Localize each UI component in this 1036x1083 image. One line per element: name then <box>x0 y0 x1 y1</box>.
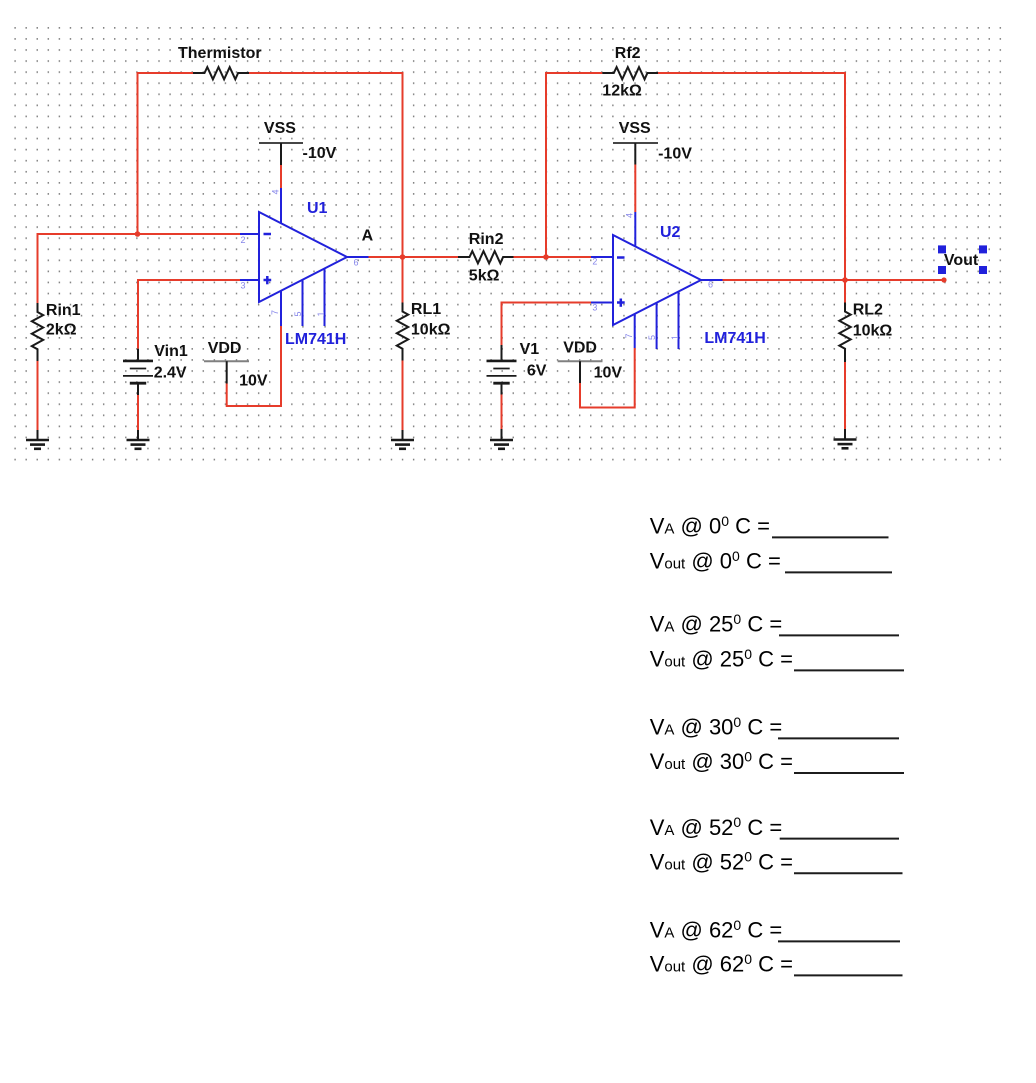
wire: V1 to ground <box>501 395 503 430</box>
wire: VSS stem to U2 pin 4 <box>634 165 636 213</box>
wire: Rf2 feedback left branch <box>546 73 602 257</box>
svg-text:V1: V1 <box>520 341 540 358</box>
svg-text:5kΩ: 5kΩ <box>469 268 500 285</box>
svg-text:1: 1 <box>670 335 680 340</box>
svg-text:7: 7 <box>624 333 634 338</box>
junction Rf2 / U2 inverting <box>543 254 549 260</box>
op-amp U2 LM741H <box>591 212 766 349</box>
svg-text:2: 2 <box>592 257 597 267</box>
svg-text:2kΩ: 2kΩ <box>46 322 77 339</box>
svg-text:RL1: RL1 <box>411 301 441 318</box>
wire: VDD to U1 pin 7 <box>227 326 281 406</box>
svg-text:2.4V: 2.4V <box>154 365 187 382</box>
wire: Vin1 to ground <box>137 395 139 430</box>
resistor RL1 <box>397 303 408 361</box>
svg-text:6: 6 <box>354 258 359 268</box>
power VDD (U1) 10V <box>204 340 268 390</box>
wire: VDD to U2 pin 7 <box>580 348 635 408</box>
wire: Rin2 to U2 inverting input <box>514 256 592 258</box>
wire: thermistor left branch from U1 inverting node up and right <box>138 73 194 234</box>
resistor Rin1 <box>32 303 43 361</box>
power VDD (U2) 10V <box>558 340 623 384</box>
svg-text:10kΩ: 10kΩ <box>411 322 451 339</box>
svg-text:Rf2: Rf2 <box>615 45 641 62</box>
svg-text:6V: 6V <box>527 363 547 380</box>
svg-text:Vin1: Vin1 <box>154 343 188 360</box>
resistor Rin2 <box>458 251 514 263</box>
svg-text:VDD: VDD <box>208 340 242 357</box>
svg-text:Rin1: Rin1 <box>46 302 81 319</box>
svg-text:10V: 10V <box>239 373 268 390</box>
wire: Rin1 to ground <box>37 361 39 430</box>
svg-text:LM741H: LM741H <box>704 330 765 347</box>
Vout label with selection handles <box>938 245 987 274</box>
junction at thermistor / inverting input <box>135 231 141 237</box>
Vout net end dot <box>941 277 946 282</box>
junction RL2 / Vout <box>842 277 848 283</box>
wire: U2 output to Vout <box>723 279 945 281</box>
resistor Rf2 <box>602 67 658 79</box>
svg-text:LM741H: LM741H <box>285 331 346 348</box>
svg-text:5: 5 <box>647 335 657 340</box>
wire: V1 to U2 non-inverting input <box>502 303 592 346</box>
wire: Rf2 output to Vout column <box>658 73 845 280</box>
svg-text:10kΩ: 10kΩ <box>853 323 893 340</box>
svg-text:Rin2: Rin2 <box>469 231 504 248</box>
svg-text:A: A <box>362 228 374 245</box>
thermistor RT <box>193 67 249 79</box>
op-amp U1 LM741H <box>240 188 369 348</box>
svg-text:VSS: VSS <box>619 120 651 137</box>
wire: U1 inverting input net <box>38 234 241 303</box>
svg-text:VSS: VSS <box>264 120 296 137</box>
svg-text:U2: U2 <box>660 224 681 241</box>
ground below RL1 <box>391 430 414 449</box>
svg-text:3: 3 <box>592 303 597 313</box>
power VSS (U1) -10V <box>259 120 337 165</box>
svg-text:-10V: -10V <box>658 146 692 163</box>
svg-text:4: 4 <box>270 189 280 194</box>
svg-text:7: 7 <box>270 310 280 315</box>
wire: node A down to RL1 <box>402 257 404 303</box>
svg-text:2: 2 <box>241 235 246 245</box>
svg-text:U1: U1 <box>307 200 328 217</box>
svg-text:5: 5 <box>293 311 303 316</box>
wire: thermistor output to node A column <box>249 73 403 257</box>
power VSS (U2) -10V <box>613 120 692 165</box>
svg-text:6: 6 <box>708 280 713 290</box>
ground below RL2 <box>834 429 857 448</box>
svg-text:VDD: VDD <box>563 340 597 357</box>
svg-text:10V: 10V <box>594 364 623 381</box>
svg-text:Thermistor: Thermistor <box>178 45 262 62</box>
svg-text:Vout: Vout <box>944 252 979 269</box>
battery Vin1 2.4V <box>123 349 153 395</box>
wire: RL1 to ground <box>402 361 404 431</box>
resistor RL2 <box>839 303 850 363</box>
svg-text:-10V: -10V <box>303 145 337 162</box>
wire: U1 output to node A and Rin2 <box>369 256 459 258</box>
ground below Vin1 <box>127 430 150 449</box>
battery V1 6V <box>487 345 517 395</box>
svg-text:RL2: RL2 <box>853 302 883 319</box>
svg-text:12kΩ: 12kΩ <box>602 83 642 100</box>
svg-text:3: 3 <box>241 281 246 291</box>
wire: VSS stem to U1 pin 4 <box>280 165 282 188</box>
wire: Vin1 to U1 non-inverting input <box>138 280 240 349</box>
wire: RL2 to ground <box>844 362 846 429</box>
junction node A <box>400 254 406 260</box>
wire: junction down to RL2 <box>844 280 846 303</box>
ground below V1 <box>490 429 513 449</box>
svg-text:1: 1 <box>316 311 326 316</box>
ground below Rin1 <box>26 430 49 449</box>
svg-text:4: 4 <box>625 213 635 218</box>
